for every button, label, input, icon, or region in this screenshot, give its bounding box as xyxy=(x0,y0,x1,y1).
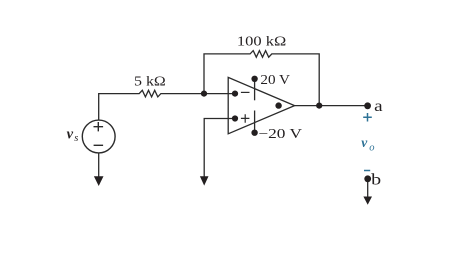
svg-text:b: b xyxy=(371,172,381,189)
svg-text:100 kΩ: 100 kΩ xyxy=(237,33,286,48)
svg-text:20 V: 20 V xyxy=(260,72,290,87)
svg-text:s: s xyxy=(74,133,78,144)
svg-text:o: o xyxy=(369,143,374,154)
svg-text:−20 V: −20 V xyxy=(258,126,302,141)
svg-text:a: a xyxy=(374,98,383,115)
svg-text:v: v xyxy=(67,127,74,143)
svg-text:v: v xyxy=(361,135,368,150)
svg-text:5 kΩ: 5 kΩ xyxy=(134,73,166,88)
